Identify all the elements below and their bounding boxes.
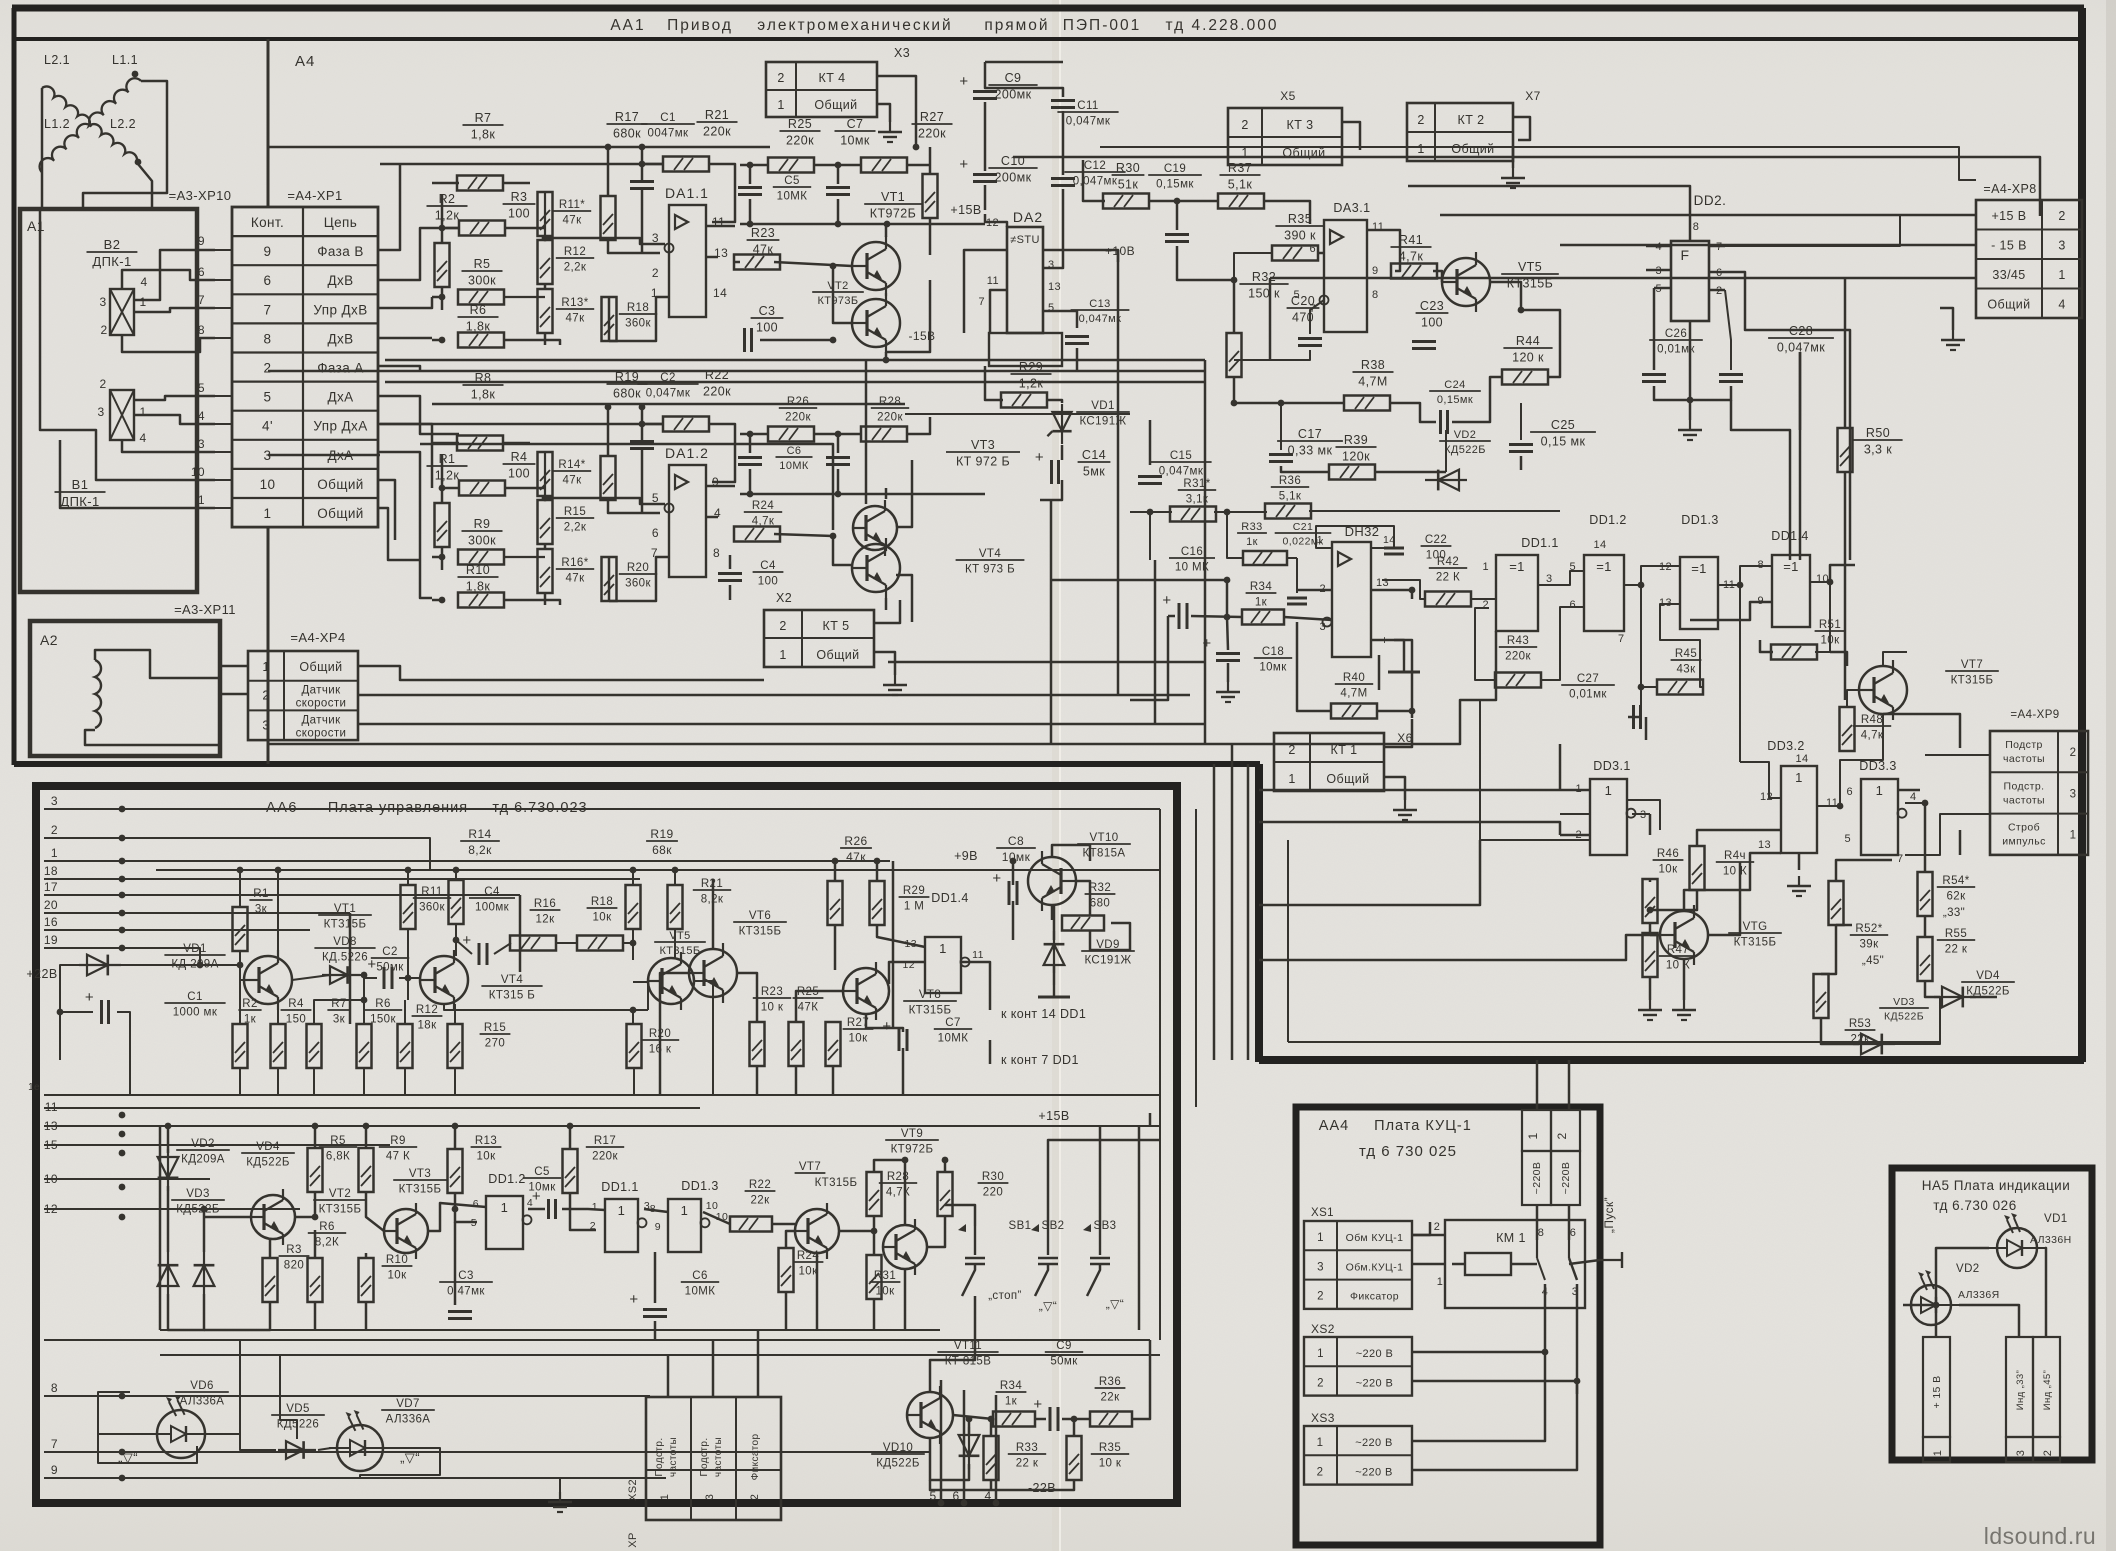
gate DD1.2b xyxy=(486,1196,523,1249)
bus wire mid1 xyxy=(385,359,1205,362)
svg-text:R50: R50 xyxy=(1866,426,1890,440)
contact stub xyxy=(215,423,232,425)
resistor R14b body xyxy=(449,880,464,924)
resistor R13b body xyxy=(448,1149,463,1193)
svg-text:120 к: 120 к xyxy=(1512,351,1544,365)
wire общий2 xyxy=(378,508,420,560)
svg-text:R4ч: R4ч xyxy=(1724,850,1746,862)
svg-text:1,8к: 1,8к xyxy=(471,128,496,142)
svg-text:R38: R38 xyxy=(1361,358,1385,372)
svg-text:R43: R43 xyxy=(1507,635,1529,647)
svg-text:Фиксатор: Фиксатор xyxy=(750,1434,761,1481)
svg-text:100: 100 xyxy=(508,207,530,221)
resistor R20b body xyxy=(627,1024,642,1068)
wires AA6 mid xyxy=(660,973,689,1095)
svg-text:Общий: Общий xyxy=(816,648,859,662)
riser resistor mid xyxy=(1227,333,1242,377)
motor winding chain L1.1-L1.2 xyxy=(40,78,141,172)
svg-text:КС191Ж: КС191Ж xyxy=(1079,416,1126,428)
svg-text:3: 3 xyxy=(704,1494,716,1501)
svg-text:10МК: 10МК xyxy=(938,1033,969,1045)
svg-text:3к: 3к xyxy=(255,904,268,916)
diode pair B xyxy=(203,1252,205,1294)
svg-text:R25: R25 xyxy=(788,117,812,131)
svg-text:КТ 4: КТ 4 xyxy=(819,71,846,85)
diode VD3 xyxy=(1853,1043,1895,1045)
svg-text:Цепь: Цепь xyxy=(324,215,357,230)
svg-text:R54*: R54* xyxy=(1942,875,1969,887)
svg-text:7: 7 xyxy=(978,296,985,308)
svg-text:R6: R6 xyxy=(470,303,487,317)
svg-text:5: 5 xyxy=(264,390,272,405)
svg-text:3: 3 xyxy=(2058,239,2065,253)
resistor R13* body xyxy=(538,289,553,333)
svg-text:300к: 300к xyxy=(468,534,496,548)
capacitor C4v body xyxy=(718,572,742,575)
wire winding left vertical xyxy=(41,88,44,209)
svg-text:+22В: +22В xyxy=(26,967,57,981)
resistor R5 body xyxy=(458,290,504,305)
connector table KT2 xyxy=(1407,103,1513,161)
svg-text:„Пуск”: „Пуск” xyxy=(1602,1197,1616,1233)
svg-text:19: 19 xyxy=(44,933,58,947)
svg-text:0,15мк: 0,15мк xyxy=(1437,394,1473,406)
wire R24 to VT3 xyxy=(774,534,851,565)
svg-text:3: 3 xyxy=(198,437,205,451)
resistor R52 body xyxy=(1829,881,1844,925)
svg-text:R39: R39 xyxy=(1344,433,1368,447)
svg-text:6: 6 xyxy=(952,1489,959,1503)
AA6 pin wires right xyxy=(122,808,1160,810)
diode VD5 xyxy=(278,1449,316,1451)
gnd C18 xyxy=(1227,663,1230,682)
svg-text:С22: С22 xyxy=(1425,534,1447,546)
svg-text:„45": „45" xyxy=(1862,955,1884,967)
resistor R28b body xyxy=(867,1172,882,1216)
winding polarity dot L1.1 xyxy=(132,71,139,78)
wire podstr1 xyxy=(1883,714,1960,748)
svg-text:12к: 12к xyxy=(535,914,555,926)
svg-text:22 к: 22 к xyxy=(1945,944,1968,956)
resistor R10b body xyxy=(359,1258,374,1302)
svg-text:С6: С6 xyxy=(787,445,802,457)
resistor R36 body xyxy=(1265,504,1311,519)
wire общий xyxy=(378,480,395,540)
capacitor C13 body xyxy=(1065,335,1089,338)
svg-text:5,1к: 5,1к xyxy=(1228,178,1253,192)
wire vt stack column xyxy=(865,360,868,504)
svg-text:ХS2: ХS2 xyxy=(1311,1322,1335,1336)
svg-text:R34: R34 xyxy=(1000,1380,1023,1392)
gate DD1.1a xyxy=(1496,555,1538,631)
svg-text:R28: R28 xyxy=(879,396,901,408)
svg-text:1к: 1к xyxy=(1255,597,1268,609)
svg-text:R6: R6 xyxy=(375,998,391,1010)
wires digital region xyxy=(1130,511,1172,513)
svg-text:Общий: Общий xyxy=(1326,772,1369,786)
wires KM1 xyxy=(1412,1234,1445,1237)
svg-text:2: 2 xyxy=(51,823,58,837)
svg-text:3: 3 xyxy=(97,405,104,419)
svg-text:10к: 10к xyxy=(875,1286,895,1298)
svg-text:1: 1 xyxy=(1932,1450,1944,1457)
led VD2c xyxy=(1911,1285,1951,1325)
resistor R42 body xyxy=(1425,592,1471,607)
svg-text:8: 8 xyxy=(713,546,720,560)
svg-text:С17: С17 xyxy=(1298,427,1322,441)
resistor R3b body xyxy=(263,1258,278,1302)
svg-text:Общий: Общий xyxy=(299,660,342,674)
svg-text:С9: С9 xyxy=(1005,71,1022,85)
svg-text:КТ315Б: КТ315Б xyxy=(909,1005,952,1017)
svg-text:R42: R42 xyxy=(1437,556,1459,568)
svg-text:R6: R6 xyxy=(319,1221,335,1233)
svg-text:3: 3 xyxy=(99,295,106,309)
capacitor C10 body xyxy=(973,173,997,176)
resistor R24m body xyxy=(734,527,780,542)
resistor R14* body xyxy=(538,452,553,496)
svg-text:2: 2 xyxy=(1482,599,1489,611)
transistor VT6 xyxy=(1660,911,1708,959)
svg-text:1: 1 xyxy=(1605,783,1613,798)
svg-text:47к: 47к xyxy=(565,573,585,585)
svg-text:VD4: VD4 xyxy=(1976,970,2000,982)
svg-text:200мк: 200мк xyxy=(995,88,1032,102)
svg-text:ХS3: ХS3 xyxy=(1311,1411,1335,1425)
left riser resistor xyxy=(435,503,450,547)
wire loop bottom right xyxy=(1287,840,1289,1042)
svg-text:=1: =1 xyxy=(1691,561,1707,576)
wire упрдхA xyxy=(378,424,432,488)
svg-text:R55: R55 xyxy=(1945,928,1967,940)
resistor R54 body xyxy=(1918,872,1933,916)
transistor VT3b xyxy=(384,1209,428,1253)
svg-text:=1: =1 xyxy=(1509,559,1525,574)
resistor R15b body xyxy=(448,1024,463,1068)
svg-text:1к: 1к xyxy=(1005,1396,1018,1408)
svg-text:R13: R13 xyxy=(475,1135,497,1147)
svg-text:VD2: VD2 xyxy=(191,1138,215,1150)
svg-text:R16*: R16* xyxy=(561,557,588,569)
AA1 step vertical border xyxy=(1255,764,1263,1062)
capacitor C8b body xyxy=(1008,881,1011,905)
svg-text:скорости: скорости xyxy=(296,698,347,710)
svg-text:„▽“: „▽“ xyxy=(1039,1299,1057,1313)
capacitor C7b body xyxy=(898,1029,901,1051)
wire дхA2 xyxy=(378,452,432,598)
svg-text:2: 2 xyxy=(652,266,659,280)
svg-text:R4: R4 xyxy=(288,998,304,1010)
AA5 connector ind33 xyxy=(2006,1337,2033,1437)
svg-text:220к: 220к xyxy=(1505,651,1531,663)
ic DA2 body xyxy=(1007,227,1043,333)
capacitor C5w body xyxy=(826,186,850,189)
svg-text:Общий: Общий xyxy=(1451,142,1494,156)
diode pair A xyxy=(167,1252,169,1294)
svg-text:С11: С11 xyxy=(1077,100,1098,112)
svg-text:L2.2: L2.2 xyxy=(110,117,136,131)
svg-text:+: + xyxy=(959,156,968,173)
svg-text:22к: 22к xyxy=(750,1195,770,1207)
wire VD down verticals xyxy=(239,1340,241,1434)
wire vt3 collector xyxy=(896,460,912,527)
svg-text:R27: R27 xyxy=(920,110,944,124)
svg-text:КД522Б: КД522Б xyxy=(1884,1011,1924,1023)
svg-text:8: 8 xyxy=(264,331,272,346)
svg-text:VT7: VT7 xyxy=(1961,659,1983,671)
svg-text:КД.5226: КД.5226 xyxy=(322,952,368,964)
wire KT1 out xyxy=(1384,719,1412,747)
wire VD5 VD7 xyxy=(205,1434,276,1450)
svg-text:SB1: SB1 xyxy=(1009,1220,1032,1232)
svg-text:14: 14 xyxy=(713,286,727,300)
svg-text:3: 3 xyxy=(2015,1450,2027,1457)
wire XP4-3 bus xyxy=(358,723,1205,726)
connector table KT3 xyxy=(1228,108,1342,165)
svg-text:~220 В: ~220 В xyxy=(1356,1348,1394,1360)
svg-text:VD1: VD1 xyxy=(2044,1213,2068,1225)
svg-text:Инд „45”: Инд „45” xyxy=(2042,1370,2053,1410)
svg-text:R17: R17 xyxy=(594,1135,616,1147)
transistor VT1b xyxy=(244,956,292,1004)
svg-text:1: 1 xyxy=(264,506,272,521)
svg-text:КД522Б: КД522Б xyxy=(246,1157,290,1169)
svg-text:С7: С7 xyxy=(945,1017,961,1029)
svg-text:R30: R30 xyxy=(1116,161,1140,175)
svg-text:Фаза А: Фаза А xyxy=(317,361,363,376)
svg-text:R14: R14 xyxy=(468,827,491,841)
svg-text:R30: R30 xyxy=(982,1171,1004,1183)
contact stub xyxy=(215,337,232,339)
svg-text:КТ315 Б: КТ315 Б xyxy=(489,990,535,1002)
svg-text:2: 2 xyxy=(262,689,269,703)
svg-text:А1: А1 xyxy=(27,218,45,234)
svg-text:=А4-ХР8: =А4-ХР8 xyxy=(1983,182,2036,196)
svg-text:0,047мк: 0,047мк xyxy=(1073,176,1118,188)
svg-text:2,2к: 2,2к xyxy=(564,522,587,534)
svg-text:9: 9 xyxy=(198,234,205,248)
wire bus y454 xyxy=(268,454,380,457)
svg-text:DA1.1: DA1.1 xyxy=(665,185,709,201)
svg-text:680к: 680к xyxy=(613,387,641,401)
led VD1c xyxy=(1997,1228,2037,1268)
transistor VT1 xyxy=(852,242,900,290)
wire DD2 up loop xyxy=(1408,186,1690,228)
wire упрдхB xyxy=(378,297,432,308)
gnd pusk xyxy=(1600,1259,1622,1261)
gate DD3.1 xyxy=(1590,779,1627,855)
svg-text:4,7М: 4,7М xyxy=(1358,375,1387,389)
svg-text:7: 7 xyxy=(1897,853,1904,865)
svg-text:47к: 47к xyxy=(565,313,585,325)
svg-text:С13: С13 xyxy=(1089,298,1110,310)
svg-text:R47: R47 xyxy=(1667,944,1689,956)
svg-text:Х2: Х2 xyxy=(776,591,792,605)
resistor R33b body xyxy=(984,1436,999,1480)
svg-text:10МК: 10МК xyxy=(777,191,808,203)
transistor VT9 xyxy=(883,1225,927,1269)
svg-text:частоты: частоты xyxy=(713,1437,724,1477)
svg-text:+: + xyxy=(1035,449,1044,466)
svg-text:КТ 972 Б: КТ 972 Б xyxy=(956,455,1010,469)
wire long under KT5 xyxy=(455,679,764,682)
wires AA5 xyxy=(1936,1248,1989,1337)
svg-text:1: 1 xyxy=(2058,268,2065,282)
svg-text:1: 1 xyxy=(262,660,269,674)
svg-text:13: 13 xyxy=(1376,577,1389,589)
svg-text:R24: R24 xyxy=(752,500,775,512)
svg-text:+: + xyxy=(882,1018,891,1035)
svg-text:R53: R53 xyxy=(1849,1018,1871,1030)
resistor R47 body xyxy=(1643,933,1658,977)
svg-text:С5: С5 xyxy=(784,175,800,187)
wire KT1 gnd xyxy=(1384,777,1405,800)
wire KT3 out xyxy=(1342,122,1360,150)
wire дхB xyxy=(378,228,459,280)
svg-text:10МК: 10МК xyxy=(685,1286,716,1298)
svg-text:С16: С16 xyxy=(1181,546,1203,558)
svg-text:КД522Б: КД522Б xyxy=(176,1204,220,1216)
svg-text:DD1.2: DD1.2 xyxy=(1589,513,1626,527)
svg-text:R46: R46 xyxy=(1657,848,1679,860)
svg-text:1: 1 xyxy=(1795,770,1803,785)
svg-text:R3: R3 xyxy=(286,1244,302,1256)
svg-text:14: 14 xyxy=(1795,753,1808,765)
svg-text:VD1: VD1 xyxy=(183,943,207,955)
svg-text:R3: R3 xyxy=(511,190,528,204)
wire B1 to pin5 xyxy=(134,396,215,400)
transistor VT8 xyxy=(843,968,889,1014)
contact stub xyxy=(215,279,232,281)
wire фаза A xyxy=(378,366,420,371)
svg-text:С12: С12 xyxy=(1084,160,1106,172)
svg-text:10МК: 10МК xyxy=(779,460,809,472)
svg-text:+15 В: +15 В xyxy=(1991,209,2026,223)
resistor R16* body xyxy=(538,549,553,593)
bus low3 xyxy=(160,1354,1160,1356)
capacitor C20 body xyxy=(1298,337,1322,340)
svg-text:220к: 220к xyxy=(918,127,946,141)
svg-text:тд 6 730 025: тд 6 730 025 xyxy=(1359,1143,1457,1160)
gate DD3.3 xyxy=(1861,779,1898,855)
svg-text:-15В: -15В xyxy=(909,329,936,343)
svg-text:КТ972Б: КТ972Б xyxy=(891,1144,934,1156)
connector table KT4 xyxy=(766,62,877,117)
svg-text:13: 13 xyxy=(1758,839,1771,851)
wire xp8 -15 xyxy=(1560,244,1976,247)
svg-text:тд 6.730 026: тд 6.730 026 xyxy=(1933,1198,2016,1213)
resistor R23b body xyxy=(750,1022,765,1066)
gnd KT4 xyxy=(889,122,891,132)
svg-text:8: 8 xyxy=(1538,1227,1545,1239)
resistor R9 body xyxy=(458,550,504,565)
gate DD1.1b xyxy=(605,1199,638,1252)
svg-text:1: 1 xyxy=(2070,830,2077,842)
wires AA6 upper-left xyxy=(60,965,88,1060)
capacitor C18 body xyxy=(1216,652,1240,655)
svg-text:Плата КУЦ-1: Плата КУЦ-1 xyxy=(1374,1118,1472,1134)
connector table XP4 xyxy=(248,651,358,740)
svg-text:10к: 10к xyxy=(848,1033,868,1045)
op-amp DA3.1 xyxy=(1324,220,1367,332)
svg-text:VT1: VT1 xyxy=(334,903,356,915)
svg-text:+9В: +9В xyxy=(954,849,978,863)
svg-text:VT3: VT3 xyxy=(409,1168,431,1180)
resistor R26m body xyxy=(768,427,814,442)
contact stub xyxy=(215,307,232,309)
svg-text:КТ 815В: КТ 815В xyxy=(945,1356,992,1368)
svg-text:100: 100 xyxy=(758,576,778,588)
svg-text:47 К: 47 К xyxy=(386,1151,410,1163)
transistor VT5b xyxy=(648,958,694,1004)
svg-text:ПЭП-001: ПЭП-001 xyxy=(1063,17,1141,34)
svg-text:Привод: Привод xyxy=(667,17,733,34)
resistor R6b body xyxy=(357,1024,372,1068)
resistor R6c body xyxy=(308,1258,323,1302)
svg-text:С4: С4 xyxy=(760,560,776,572)
svg-text:1: 1 xyxy=(659,1494,671,1501)
svg-text:150 к: 150 к xyxy=(1248,287,1280,301)
svg-text:1: 1 xyxy=(1526,1132,1540,1139)
resistor R7 body xyxy=(457,176,503,191)
wire xp8 gnd xyxy=(1940,308,1953,330)
connector table XS2b xyxy=(1304,1337,1412,1396)
resistor R46 body xyxy=(1690,846,1705,890)
svg-text:220: 220 xyxy=(983,1187,1003,1199)
svg-text:С26: С26 xyxy=(1665,328,1687,340)
wire aa6 right verticals xyxy=(1138,1126,1141,1330)
svg-text:VD7: VD7 xyxy=(396,1398,420,1410)
svg-text:Датчик: Датчик xyxy=(301,714,341,726)
resistor R15 body xyxy=(538,500,553,544)
svg-text:DD3.1: DD3.1 xyxy=(1593,759,1630,773)
resistor R34a body xyxy=(1242,610,1284,625)
wires AA6 low xyxy=(167,1126,170,1153)
svg-text:11: 11 xyxy=(1826,797,1838,809)
svg-text:тд 4.228.000: тд 4.228.000 xyxy=(1166,17,1279,34)
svg-text:270: 270 xyxy=(485,1038,505,1050)
svg-text:VT7: VT7 xyxy=(799,1161,821,1173)
sheet right border xyxy=(2078,8,2086,1062)
svg-text:прямой: прямой xyxy=(984,17,1049,34)
wire xp9 strob gnd xyxy=(1959,830,1962,855)
svg-text:100: 100 xyxy=(1421,316,1443,330)
svg-text:5: 5 xyxy=(198,381,205,395)
svg-text:14: 14 xyxy=(1593,539,1606,551)
svg-text:Общий: Общий xyxy=(1987,298,2030,312)
resistor R51 body xyxy=(1771,645,1817,660)
svg-text:50мк: 50мк xyxy=(1050,1356,1078,1368)
svg-text:скорости: скорости xyxy=(296,727,347,739)
svg-text:10к: 10к xyxy=(1658,864,1678,876)
sensor B2 symbol xyxy=(110,289,134,335)
wire A2 conn1 xyxy=(220,665,248,668)
resistor R27b body xyxy=(826,1022,841,1066)
svg-text:3: 3 xyxy=(1546,573,1553,585)
wire big loop2 xyxy=(1100,147,1976,180)
resistor R32b body xyxy=(1062,916,1104,931)
rail minus xyxy=(740,493,985,496)
svg-text:R1: R1 xyxy=(253,888,269,900)
wire C28 down xyxy=(1799,352,1802,560)
svg-text:VT4: VT4 xyxy=(501,974,523,986)
svg-text:С1: С1 xyxy=(187,991,203,1003)
svg-text:2: 2 xyxy=(1317,1291,1324,1303)
svg-text:DD1.1: DD1.1 xyxy=(1521,536,1558,550)
svg-text:R7: R7 xyxy=(475,111,492,125)
svg-text:R23: R23 xyxy=(761,986,783,998)
svg-text:С6: С6 xyxy=(692,1270,708,1282)
